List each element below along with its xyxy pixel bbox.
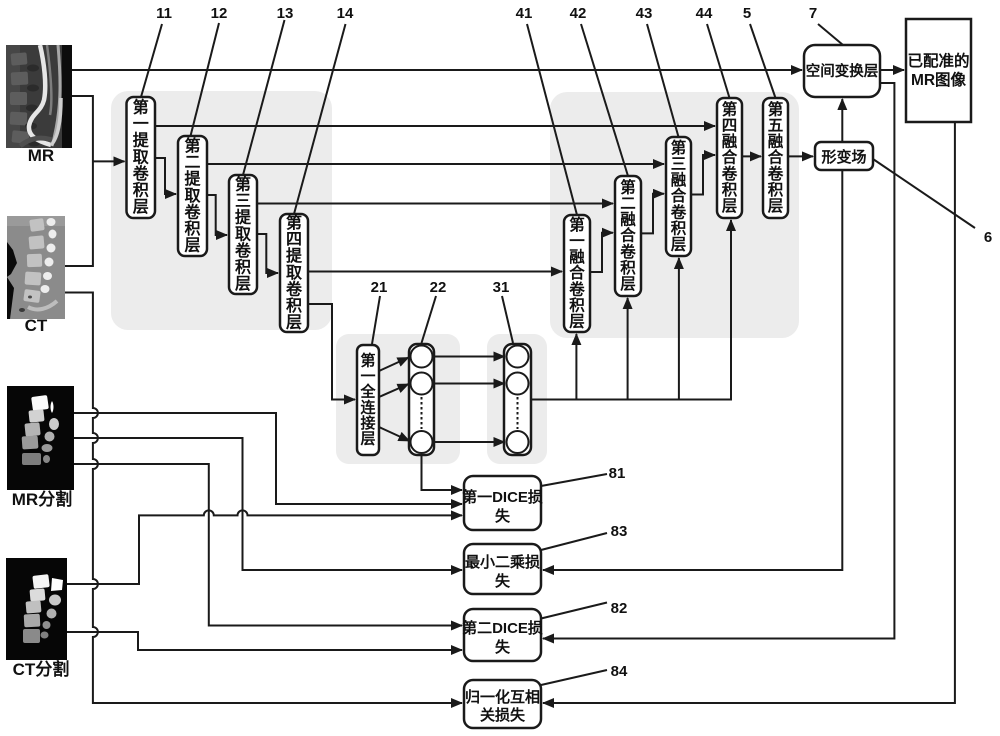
svg-text:12: 12 — [211, 5, 228, 22]
leader 22 — [422, 296, 437, 343]
leader 21 — [372, 296, 380, 344]
svg-text:6: 6 — [984, 229, 992, 246]
svg-text:第一全连接层: 第一全连接层 — [359, 352, 376, 448]
wire FC to node 22 bottom circle — [379, 427, 410, 441]
wire node 22 to node 31 row2 — [433, 383, 505, 385]
box 形变场 (6) — [815, 142, 873, 170]
svg-text:84: 84 — [611, 663, 628, 680]
wire F3 to F4 — [691, 155, 715, 195]
svg-text:MR分割: MR分割 — [12, 489, 72, 509]
wire spatial transform second output down to loss 82 — [543, 83, 894, 639]
wire skip E4 to F1 — [308, 271, 562, 273]
leader 5 — [750, 24, 776, 98]
svg-text:11: 11 — [156, 5, 172, 22]
wire E3 to E4 — [257, 234, 278, 273]
wire bus branch up to F3 — [678, 258, 680, 400]
wire MR seg line B to loss 83 — [74, 438, 462, 570]
panel fusion layers — [550, 92, 799, 338]
wire deformation field up to spatial transform — [841, 99, 843, 142]
svg-text:第一提取卷积层: 第一提取卷积层 — [132, 98, 150, 217]
leader 7 — [818, 24, 843, 45]
box E3 第三提取卷积层 (13) — [229, 175, 257, 294]
leader 12 — [191, 23, 220, 136]
wire bus branch up to F2 — [627, 298, 629, 400]
svg-text:空间变换层: 空间变换层 — [806, 62, 879, 80]
panel extraction layers — [111, 91, 332, 330]
leader 6 — [873, 159, 975, 228]
box loss 83 最小二乘损失 — [464, 544, 541, 594]
box E2 第二提取卷积层 (12) — [178, 136, 207, 256]
panel nodes 31 — [487, 334, 547, 464]
box loss 82 第二DICE损失 — [464, 609, 541, 661]
svg-text:31: 31 — [493, 279, 510, 296]
box E1 第一提取卷积层 (11) — [127, 97, 156, 218]
wire bus from nodes 31 to F4 — [531, 220, 731, 400]
wire skip E1 to F4 — [155, 125, 715, 127]
svg-text:22: 22 — [430, 279, 447, 296]
image CT segmentation — [6, 558, 67, 660]
svg-text:MR: MR — [28, 146, 54, 165]
leader 14 — [294, 24, 346, 214]
wire E1 to E2 — [155, 158, 176, 194]
wire deformation field down to loss 83 — [543, 170, 842, 570]
leader diagonals — [141, 20, 975, 685]
leader 42 — [581, 24, 628, 176]
image CT — [7, 216, 65, 319]
panel FC + nodes 22 — [336, 334, 460, 464]
svg-text:81: 81 — [609, 465, 626, 482]
wire F4 to F5 — [742, 155, 761, 157]
svg-text:第四融合卷积层: 第四融合卷积层 — [721, 99, 738, 215]
box nodes 22 — [409, 344, 434, 455]
svg-text:形变场: 形变场 — [821, 148, 866, 166]
box 空间变换层 (7) — [804, 45, 880, 97]
wire node 22 bottom circle to loss 81 — [422, 455, 463, 490]
box E4 第四提取卷积层 (14) — [280, 214, 308, 332]
wire MR second output joining concat vertical — [65, 96, 93, 266]
wire MR seg line A to loss 81 — [74, 413, 462, 504]
svg-text:13: 13 — [277, 5, 294, 22]
node circles 22 — [411, 346, 433, 454]
box 已配准的MR图像 — [906, 19, 971, 122]
svg-text:CT分割: CT分割 — [13, 659, 70, 679]
wire bus branch up to F1 — [575, 334, 577, 400]
svg-text:42: 42 — [570, 5, 587, 22]
leader 11 — [141, 24, 162, 97]
leader 81 — [541, 474, 607, 486]
box loss 81 第一DICE损失 — [464, 476, 541, 530]
wire FC to node 22 middle circle — [379, 384, 409, 397]
wire node 22 to node 31 row1 — [433, 356, 505, 358]
image MR segmentation — [7, 386, 74, 490]
wire E4 to FC layer — [308, 304, 355, 400]
wire CT seg line E to loss 82 — [66, 632, 462, 650]
box loss 84 归一化互相关损失 — [464, 680, 541, 728]
leader 41 — [527, 24, 577, 215]
leader 13 — [243, 20, 285, 175]
svg-text:第四提取卷积层: 第四提取卷积层 — [285, 213, 303, 332]
wire concat arrow into E1 — [93, 160, 125, 162]
box F2 第二融合卷积层 (42) — [615, 176, 641, 296]
box F5 第五融合卷积层 (5) — [763, 98, 788, 218]
svg-text:第二融合卷积层: 第二融合卷积层 — [619, 177, 636, 293]
box FC 第一全连接层 (21) — [357, 345, 379, 455]
box F1 第一融合卷积层 (41) — [564, 215, 590, 332]
node dots 22 — [421, 397, 423, 429]
svg-text:7: 7 — [809, 5, 817, 22]
svg-text:第三提取卷积层: 第三提取卷积层 — [234, 175, 252, 294]
wire spatial transform to registered MR image — [880, 69, 904, 71]
leader 31 — [502, 296, 513, 343]
node dots 31 — [517, 397, 519, 429]
wire MR to spatial transform layer (top long line) — [72, 69, 802, 71]
node circles 31 — [507, 346, 529, 454]
leader 84 — [541, 670, 607, 685]
leader 44 — [707, 24, 730, 98]
wire skip E3 to F2 — [257, 203, 613, 205]
wire CT second output long vertical to loss 84 — [65, 293, 462, 704]
wire registered MR image down to loss 84 — [543, 122, 955, 703]
wire E2 to E3 — [207, 195, 227, 235]
svg-text:21: 21 — [371, 279, 388, 296]
svg-text:82: 82 — [611, 600, 628, 617]
wire MR seg line C to loss 82 — [74, 464, 462, 626]
svg-text:44: 44 — [696, 5, 713, 22]
svg-text:第一融合卷积层: 第一融合卷积层 — [568, 215, 585, 331]
image MR — [6, 45, 72, 148]
box F3 第三融合卷积层 (43) — [666, 137, 691, 256]
leader 83 — [541, 533, 607, 550]
wire CT seg line D to loss 81 — [66, 510, 462, 584]
svg-text:41: 41 — [516, 5, 533, 22]
leader 82 — [541, 603, 607, 619]
wire skip E2 to F3 — [207, 163, 664, 165]
leader 43 — [647, 24, 679, 137]
box nodes 31 — [504, 344, 531, 455]
wire F5 to deformation field — [788, 155, 813, 157]
svg-text:CT: CT — [25, 316, 48, 335]
svg-text:14: 14 — [337, 5, 354, 22]
svg-text:第二提取卷积层: 第二提取卷积层 — [183, 136, 201, 255]
box F4 第四融合卷积层 (44) — [717, 98, 742, 218]
wire F2 to F3 — [641, 194, 664, 234]
svg-text:5: 5 — [743, 5, 751, 22]
svg-text:83: 83 — [611, 523, 628, 540]
svg-text:43: 43 — [636, 5, 653, 22]
svg-text:第三融合卷积层: 第三融合卷积层 — [670, 138, 687, 254]
svg-text:第五融合卷积层: 第五融合卷积层 — [767, 99, 784, 215]
wire FC to node 22 top circle — [379, 358, 409, 372]
wire node 22 to node 31 row3 — [433, 441, 505, 443]
wire F1 to F2 — [590, 233, 613, 272]
